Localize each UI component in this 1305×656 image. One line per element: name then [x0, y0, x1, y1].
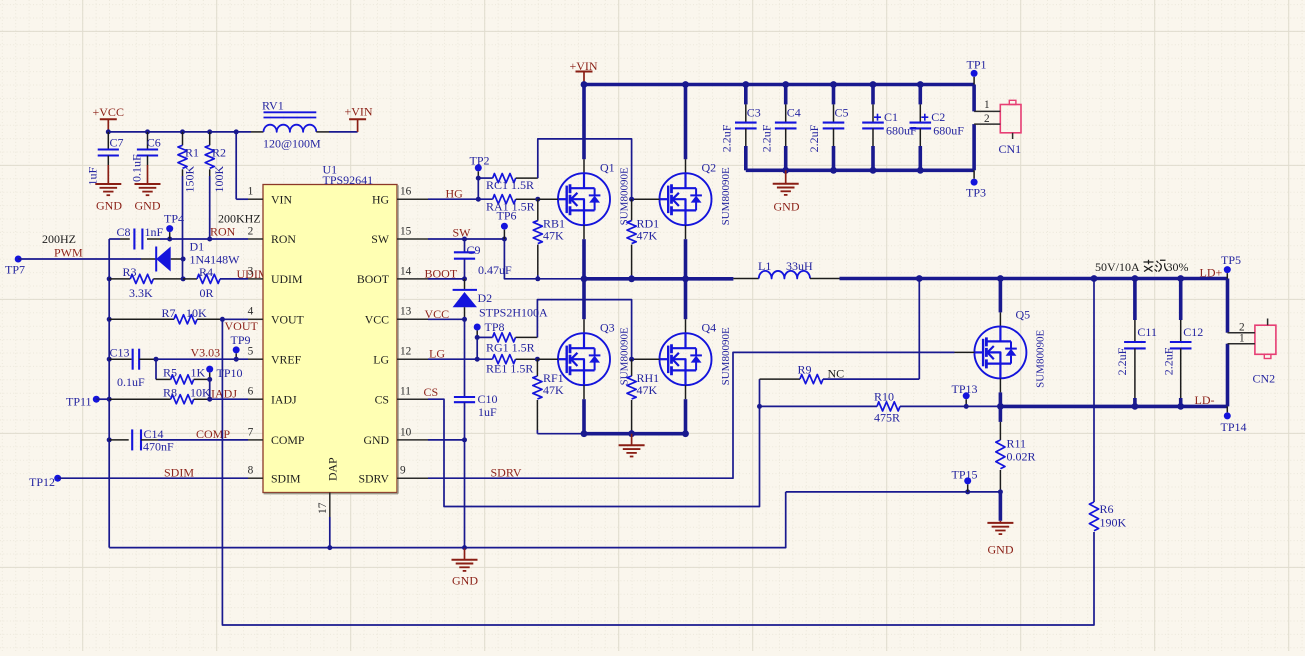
wire gnd line bottom	[109, 492, 786, 548]
junction RB1 bottom	[535, 276, 540, 281]
svg-text:D1: D1	[190, 240, 205, 254]
resistor RA1 1.5R	[486, 195, 538, 214]
svg-text:2.2uF: 2.2uF	[1115, 347, 1129, 375]
test point TP12	[29, 475, 61, 489]
svg-text:Q5: Q5	[1016, 308, 1031, 322]
capacitor C11 2.2uF	[1115, 279, 1157, 407]
svg-text:C1: C1	[884, 110, 898, 124]
connector CN2	[1228, 319, 1276, 386]
svg-text:VCC: VCC	[365, 313, 389, 327]
svg-text:TP11: TP11	[66, 395, 92, 409]
wire SW row	[428, 237, 507, 242]
wire to pin1 VIN	[236, 132, 248, 199]
test point TP7	[5, 256, 25, 277]
transistor Q4 SUM80090E	[632, 279, 732, 399]
wire GND column left	[107, 239, 112, 548]
svg-text:TP5: TP5	[1221, 253, 1241, 267]
wire source bus	[581, 399, 689, 437]
svg-text:C2: C2	[931, 110, 945, 124]
svg-text:1: 1	[248, 186, 254, 198]
test point TP8	[474, 320, 505, 337]
svg-text:R8: R8	[163, 385, 177, 399]
svg-text:TP4: TP4	[164, 212, 184, 226]
svg-text:1K: 1K	[191, 366, 206, 380]
ground GND cap bank	[773, 170, 800, 213]
svg-text:475R: 475R	[874, 411, 900, 425]
text 50V/10A ripple	[1095, 260, 1189, 274]
resistor R11 0.02R	[996, 406, 1036, 492]
svg-text:SDRV: SDRV	[358, 471, 389, 485]
pin 12 LG	[373, 346, 428, 367]
capacitor C2 680uF polarized	[910, 81, 965, 170]
wire CN2 pin1 to LD-	[1226, 344, 1230, 407]
svg-text:190K: 190K	[1100, 516, 1127, 530]
wire RC1 to Q2 gate	[538, 139, 632, 199]
pin 8 SDIM	[248, 465, 301, 486]
ground GND under R11	[987, 492, 1013, 557]
svg-text:SW: SW	[371, 232, 390, 246]
junction R11 bottom	[998, 489, 1003, 494]
svg-text:Q1: Q1	[600, 161, 615, 175]
svg-text:2.2uF: 2.2uF	[1162, 347, 1176, 375]
svg-text:C8: C8	[117, 225, 131, 239]
resistor R5 1K	[156, 359, 210, 384]
wire input cap bottom rail	[746, 167, 974, 174]
resistor RE1 1.5R	[486, 355, 537, 376]
svg-text:IADJ: IADJ	[271, 392, 297, 406]
wire VCC row	[428, 317, 467, 322]
test point TP1	[967, 58, 987, 85]
svg-text:R1: R1	[185, 146, 199, 160]
svg-text:NC: NC	[828, 367, 845, 381]
svg-text:GND: GND	[988, 543, 1014, 557]
svg-text:100K: 100K	[212, 166, 226, 193]
wire HG row	[428, 197, 493, 202]
junction VREF node	[154, 357, 159, 362]
svg-text:C4: C4	[787, 105, 801, 119]
svg-text:TP1: TP1	[967, 58, 987, 72]
svg-text:47K: 47K	[543, 383, 564, 397]
svg-text:CN2: CN2	[1253, 371, 1276, 385]
junction Q3 gate	[535, 357, 540, 362]
svg-text:UDIM: UDIM	[271, 272, 303, 286]
pin 7 COMP	[248, 426, 305, 447]
svg-text:SUM80090E: SUM80090E	[720, 167, 732, 225]
junction Q2 gate	[629, 197, 634, 202]
svg-text:1: 1	[984, 99, 990, 111]
svg-text:LG: LG	[373, 352, 389, 366]
svg-text:GND: GND	[774, 200, 800, 214]
wire BOOT row	[428, 276, 467, 281]
test point TP5	[1221, 253, 1241, 279]
svg-text:R10: R10	[874, 390, 894, 404]
svg-text:CN1: CN1	[999, 142, 1022, 156]
svg-text:RV1: RV1	[262, 99, 284, 113]
svg-text:TP8: TP8	[485, 320, 505, 334]
wire SDRV net	[428, 352, 955, 478]
wire HG to RC1 row	[476, 176, 481, 200]
pin 14 BOOT	[357, 265, 428, 286]
test point TP3	[966, 170, 986, 199]
svg-text:12: 12	[400, 346, 412, 358]
test point TP4	[164, 212, 184, 240]
junction R10 left	[757, 404, 762, 409]
capacitor C7 1uF	[86, 132, 124, 186]
svg-text:1uF: 1uF	[478, 405, 497, 419]
capacitor C9 0.47uF	[454, 239, 512, 279]
svg-text:BOOT: BOOT	[357, 272, 390, 286]
wire R5 to IADJ row	[209, 379, 211, 399]
svg-text:Q2: Q2	[702, 161, 717, 175]
svg-text:C9: C9	[467, 243, 481, 257]
svg-text:TP10: TP10	[217, 366, 243, 380]
test point TP9	[231, 333, 251, 362]
test point TP6	[497, 209, 517, 240]
svg-text:C7: C7	[110, 136, 124, 150]
power port +VIN top	[570, 59, 598, 85]
test point TP13	[952, 382, 978, 409]
pin 15 SW	[371, 225, 428, 246]
svg-text:SW: SW	[453, 226, 472, 240]
svg-text:IADJ: IADJ	[211, 387, 237, 401]
svg-text:2: 2	[248, 225, 254, 237]
capacitor C13 0.1uF	[109, 346, 156, 390]
svg-text:TP7: TP7	[5, 263, 25, 277]
svg-text:RC1 1.5R: RC1 1.5R	[486, 178, 534, 192]
diode D2 STPS2H100A	[453, 279, 548, 320]
test point TP14	[1221, 406, 1247, 434]
svg-text:+VIN: +VIN	[345, 105, 373, 119]
pin 16 HG	[372, 186, 428, 207]
wire SW to mid bus	[504, 239, 584, 279]
svg-text:5: 5	[248, 346, 254, 358]
inductor RV1 120@100M	[251, 99, 329, 151]
pin 11 CS	[375, 386, 428, 407]
svg-text:30%: 30%	[1167, 260, 1189, 274]
svg-text:0.02R: 0.02R	[1007, 450, 1036, 464]
test point TP2	[470, 154, 490, 179]
svg-text:RON: RON	[210, 225, 236, 239]
svg-text:SUM80090E: SUM80090E	[619, 167, 631, 225]
power port +VCC	[93, 105, 124, 132]
svg-text:6: 6	[248, 386, 254, 398]
wire CN1 pin2 riser	[972, 124, 976, 170]
svg-text:C10: C10	[478, 392, 498, 406]
wire LD- bus	[997, 403, 1228, 410]
svg-text:R11: R11	[1007, 437, 1027, 451]
svg-text:11: 11	[400, 386, 411, 398]
transistor Q3 SUM80090E	[537, 279, 630, 399]
junction VOUT node	[220, 317, 225, 322]
svg-text:680uF: 680uF	[933, 124, 964, 138]
svg-text:C6: C6	[147, 136, 161, 150]
svg-text:VOUT: VOUT	[225, 319, 259, 333]
svg-text:15: 15	[400, 225, 412, 237]
junction D1 cathode node	[181, 257, 186, 262]
pin 17 DAP	[317, 457, 340, 517]
wire TP15 row	[786, 489, 1001, 494]
svg-text:2: 2	[984, 113, 990, 125]
resistor RC1 1.5R	[478, 174, 538, 192]
svg-text:3: 3	[248, 265, 254, 277]
wire R1 lower lead	[182, 176, 184, 279]
pin 3 UDIM	[248, 265, 303, 286]
svg-text:47K: 47K	[637, 228, 658, 242]
svg-text:L1: L1	[758, 259, 771, 273]
svg-text:TP14: TP14	[1221, 420, 1247, 434]
svg-text:COMP: COMP	[271, 433, 305, 447]
svg-text:TP6: TP6	[497, 209, 517, 223]
diode D1 1N4148W	[141, 240, 240, 272]
wire VCC rail	[106, 129, 251, 134]
svg-text:150K: 150K	[183, 166, 197, 193]
resistor R2 100K	[205, 132, 226, 193]
pin 4 VOUT	[248, 306, 305, 327]
svg-text:0.1uF: 0.1uF	[130, 154, 144, 182]
ground GND under C6	[135, 165, 161, 213]
svg-text:V3.03: V3.03	[191, 346, 221, 360]
svg-text:HG: HG	[372, 192, 390, 206]
svg-text:R4: R4	[199, 265, 213, 279]
wire R2 lower lead	[209, 176, 211, 239]
wire VOUT sense bottom	[222, 319, 1094, 625]
wire chip gnd column	[462, 440, 467, 550]
svg-text:GND: GND	[363, 433, 389, 447]
pin 6 IADJ	[248, 386, 297, 407]
svg-text:470nF: 470nF	[143, 440, 174, 454]
wire RF1 to source bus	[537, 433, 584, 435]
svg-text:RE1 1.5R: RE1 1.5R	[486, 362, 533, 376]
wire VREF row	[156, 358, 248, 360]
wire RON row	[109, 237, 248, 242]
svg-text:C13: C13	[110, 346, 130, 360]
resistor R9 NC	[760, 363, 920, 384]
capacitor C1 680uF polarized	[862, 81, 917, 170]
svg-text:R5: R5	[163, 366, 177, 380]
test point TP10	[206, 366, 242, 382]
svg-text:PWM: PWM	[54, 246, 83, 260]
capacitor C4 2.2uF	[759, 81, 800, 170]
test point TP15	[952, 468, 978, 492]
svg-text:D2: D2	[478, 291, 493, 305]
pin 13 VCC	[365, 306, 428, 327]
svg-text:680uF: 680uF	[886, 124, 917, 138]
svg-text:VREF: VREF	[271, 352, 302, 366]
svg-text:0.47uF: 0.47uF	[478, 263, 512, 277]
svg-text:2.2uF: 2.2uF	[807, 124, 821, 152]
svg-text:VIN: VIN	[271, 192, 292, 206]
junction Q4 gate	[629, 357, 634, 362]
svg-text:10: 10	[400, 426, 412, 438]
pin 9 SDRV	[358, 465, 428, 486]
wire RG1 to Q4 gate	[537, 300, 631, 360]
svg-text:COMP: COMP	[196, 427, 230, 441]
svg-text:VOUT: VOUT	[271, 313, 305, 327]
svg-text:C12: C12	[1183, 325, 1203, 339]
resistor R1 150K	[178, 132, 199, 193]
svg-text:200KHZ: 200KHZ	[218, 212, 261, 226]
junction UDIM node	[181, 276, 186, 281]
svg-text:+VCC: +VCC	[93, 105, 124, 119]
connector CN1	[974, 99, 1021, 156]
svg-text:CS: CS	[375, 392, 389, 406]
svg-text:2.2uF: 2.2uF	[720, 124, 734, 152]
svg-text:LD+: LD+	[1200, 266, 1223, 280]
svg-text:R2: R2	[212, 146, 226, 160]
svg-text:47K: 47K	[637, 383, 658, 397]
svg-text:TPS92641: TPS92641	[323, 173, 374, 187]
ground under H-bridge	[619, 434, 645, 457]
ground GND under C7	[95, 165, 122, 213]
svg-text:TP15: TP15	[952, 468, 978, 482]
svg-text:GND: GND	[96, 199, 122, 213]
svg-text:3.3K: 3.3K	[129, 286, 153, 300]
svg-text:13: 13	[400, 306, 412, 318]
wire DAP to gnd line	[327, 517, 332, 550]
resistor R3 3.3K	[109, 265, 183, 300]
capacitor C3 2.2uF	[720, 81, 761, 170]
wire CS net	[428, 379, 760, 506]
svg-text:4: 4	[248, 306, 254, 318]
svg-text:DAP: DAP	[326, 457, 340, 481]
wire SDIM row	[58, 477, 248, 479]
svg-text:1uF: 1uF	[86, 167, 100, 186]
svg-text:TP12: TP12	[29, 475, 55, 489]
pin 2 RON	[248, 225, 297, 246]
svg-text:10K: 10K	[190, 385, 211, 399]
capacitor C5 2.2uF	[807, 81, 848, 170]
wire mid bus SW	[581, 239, 734, 282]
svg-text:33uH: 33uH	[786, 259, 813, 273]
svg-text:17: 17	[317, 502, 329, 514]
svg-text:2.2uF: 2.2uF	[759, 124, 773, 152]
wire LD+ to CN2	[1226, 279, 1230, 333]
svg-text:TP3: TP3	[966, 186, 986, 200]
svg-text:1nF: 1nF	[145, 225, 164, 239]
svg-text:120@100M: 120@100M	[263, 137, 321, 151]
pin 5 VREF	[248, 346, 302, 367]
pin 10 GND	[363, 426, 428, 447]
wire TP8 column	[475, 337, 480, 361]
resistor R8 10K	[96, 385, 248, 404]
svg-text:Q4: Q4	[702, 321, 717, 335]
wire RV1 to +VIN	[329, 131, 358, 133]
svg-text:R9: R9	[798, 363, 812, 377]
pin 1 VIN	[248, 186, 293, 207]
resistor R6 190K	[1089, 279, 1126, 534]
svg-text:50V/10A: 50V/10A	[1095, 260, 1140, 274]
wire GND pin10	[428, 437, 467, 442]
capacitor C14 470nF	[109, 427, 248, 454]
resistor RH1 47K	[627, 359, 659, 434]
resistor R10 475R	[760, 390, 1001, 425]
resistor RF1 47K	[533, 359, 564, 434]
svg-text:R3: R3	[123, 265, 137, 279]
resistor RB1 47K	[533, 199, 565, 279]
resistor R7 10K	[109, 306, 248, 324]
svg-text:0R: 0R	[200, 286, 214, 300]
wire PWM	[18, 258, 141, 260]
svg-text:0.1uF: 0.1uF	[117, 375, 145, 389]
wire NC riser	[918, 279, 920, 380]
svg-text:RG1 1.5R: RG1 1.5R	[486, 341, 535, 355]
svg-text:14: 14	[400, 265, 412, 277]
svg-text:16: 16	[400, 186, 412, 198]
resistor R4 0R	[183, 265, 248, 300]
capacitor C10 1uF	[454, 319, 498, 440]
svg-text:1: 1	[1239, 333, 1245, 345]
svg-text:R7: R7	[162, 306, 176, 320]
svg-text:RON: RON	[271, 232, 296, 246]
wire CN1 pin1 riser	[972, 85, 976, 112]
svg-text:1N4148W: 1N4148W	[190, 253, 241, 267]
svg-text:LD-: LD-	[1195, 393, 1215, 407]
svg-text:CS: CS	[424, 385, 439, 399]
svg-text:47K: 47K	[543, 228, 564, 242]
transistor Q2 SUM80090E	[632, 85, 732, 240]
svg-text:C5: C5	[835, 105, 849, 119]
transistor Q5 SUM80090E	[955, 279, 1047, 407]
capacitor C6 0.1uF	[130, 132, 161, 182]
wire +VIN bus	[581, 81, 975, 88]
svg-text:200HZ: 200HZ	[42, 232, 76, 246]
svg-text:C11: C11	[1137, 325, 1157, 339]
svg-text:Q3: Q3	[600, 321, 615, 335]
svg-text:SDIM: SDIM	[164, 466, 194, 480]
resistor RG1 1.5R	[475, 333, 538, 355]
wire LG row	[428, 358, 493, 360]
transistor Q1 SUM80090E	[538, 85, 631, 240]
svg-text:8: 8	[248, 465, 254, 477]
svg-text:GND: GND	[135, 199, 161, 213]
svg-text:SUM80090E: SUM80090E	[720, 327, 732, 385]
capacitor C12 2.2uF	[1162, 279, 1204, 407]
junction Q1 gate	[535, 197, 540, 202]
svg-text:7: 7	[248, 426, 254, 438]
svg-text:SDIM: SDIM	[271, 471, 301, 485]
IC U1 TPS92641	[263, 163, 398, 494]
svg-text:10K: 10K	[186, 306, 207, 320]
svg-text:GND: GND	[452, 574, 478, 588]
wire LD+ rail	[840, 275, 1228, 282]
svg-text:9: 9	[400, 465, 406, 477]
resistor RD1 47K	[627, 199, 659, 279]
inductor L1 33uH	[733, 259, 839, 279]
svg-text:R6: R6	[1100, 502, 1114, 516]
capacitor C8 1nF	[117, 225, 164, 250]
power port +VIN left	[345, 105, 373, 132]
ground GND below chip	[452, 548, 479, 588]
test point TP11	[66, 395, 100, 409]
svg-text:C3: C3	[747, 105, 761, 119]
svg-text:SUM80090E: SUM80090E	[1035, 330, 1047, 388]
